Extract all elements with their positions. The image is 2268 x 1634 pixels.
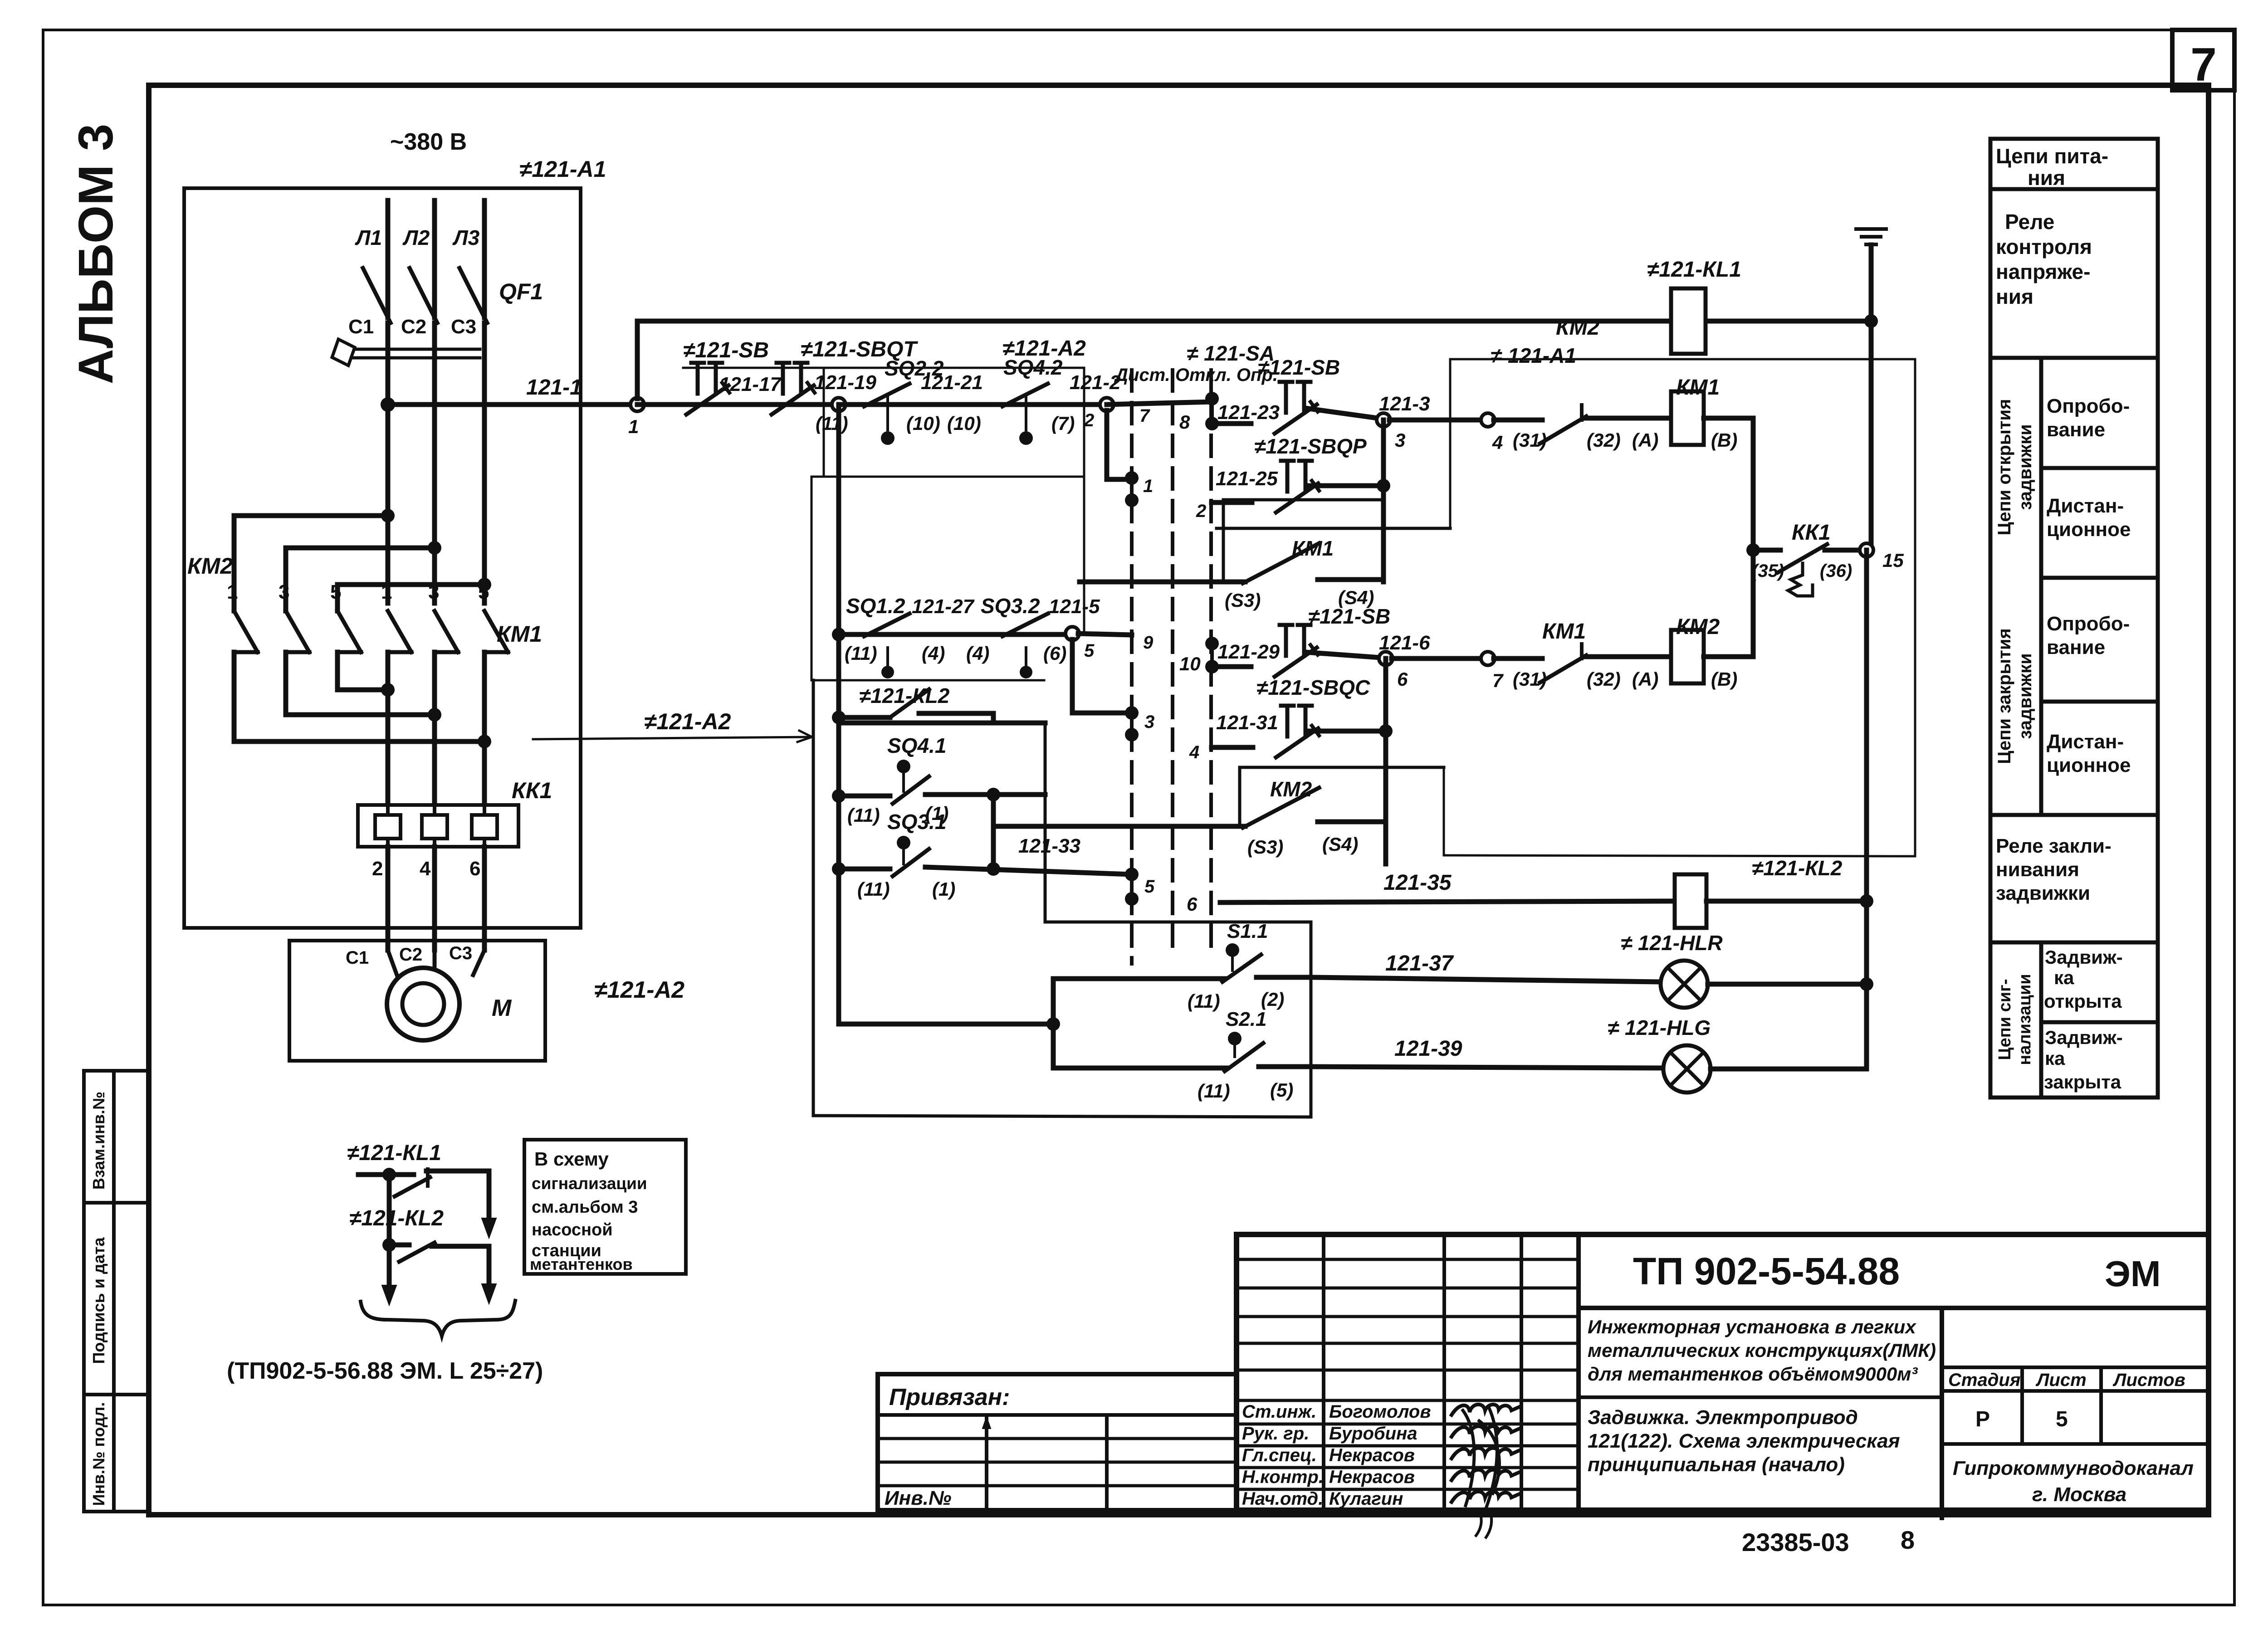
travel switch SQ3.2 bbox=[1002, 614, 1048, 636]
svg-text:закрыта: закрыта bbox=[2044, 1071, 2121, 1093]
svg-text:Реле закли-: Реле закли- bbox=[1996, 835, 2112, 857]
svg-text:насосной: насосной bbox=[532, 1220, 613, 1239]
svg-text:121-21: 121-21 bbox=[921, 371, 983, 394]
svg-text:ТП 902-5-54.88: ТП 902-5-54.88 bbox=[1633, 1250, 1900, 1293]
svg-text:121-17: 121-17 bbox=[719, 373, 782, 395]
svg-text:Н.контр.: Н.контр. bbox=[1242, 1467, 1324, 1487]
right function table bbox=[1990, 139, 2158, 1097]
svg-text:сигнализации: сигнализации bbox=[532, 1174, 647, 1193]
pushbutton SBQT bbox=[777, 363, 807, 394]
svg-text:121-5: 121-5 bbox=[1049, 595, 1100, 618]
svg-text:8: 8 bbox=[1179, 411, 1190, 433]
selfhold contact KM1 box bbox=[1217, 527, 1450, 530]
title block main bbox=[1237, 1234, 2209, 1510]
svg-text:Опробо-: Опробо- bbox=[2047, 613, 2130, 635]
coil KM1 bbox=[1671, 391, 1704, 445]
svg-text:(35): (35) bbox=[1752, 561, 1784, 581]
svg-text:Цепи закрытия: Цепи закрытия bbox=[1994, 628, 2014, 764]
svg-text:В схему: В схему bbox=[534, 1148, 609, 1170]
svg-text:ка: ка bbox=[2054, 967, 2074, 988]
node 121-2 bbox=[1100, 398, 1114, 411]
svg-text:Задвиж-: Задвиж- bbox=[2045, 946, 2123, 968]
description cell bbox=[1940, 1308, 1944, 1518]
svg-text:Некрасов: Некрасов bbox=[1329, 1467, 1415, 1487]
svg-text:см.альбом 3: см.альбом 3 bbox=[532, 1198, 638, 1217]
svg-text:5: 5 bbox=[1144, 877, 1155, 897]
plug contacts 5 bbox=[1125, 868, 1139, 881]
svg-text:нализации: нализации bbox=[2015, 974, 2034, 1065]
svg-text:Стадия: Стадия bbox=[1948, 1370, 2020, 1390]
svg-text:121-31: 121-31 bbox=[1216, 712, 1278, 734]
svg-text:(11): (11) bbox=[857, 878, 890, 900]
svg-text:Листов: Листов bbox=[2112, 1370, 2185, 1390]
svg-text:(11): (11) bbox=[845, 643, 877, 664]
svg-text:SQ3.2: SQ3.2 bbox=[981, 594, 1040, 618]
svg-text:Инв.№: Инв.№ bbox=[885, 1487, 951, 1509]
svg-text:121-37: 121-37 bbox=[1385, 951, 1454, 976]
thin box A2 upper bbox=[683, 367, 1084, 369]
svg-text:(В): (В) bbox=[1711, 429, 1737, 451]
svg-text:(А): (А) bbox=[1632, 429, 1658, 451]
svg-text:КК1: КК1 bbox=[512, 778, 552, 803]
svg-text:задвижки: задвижки bbox=[2015, 424, 2035, 510]
svg-text:Цепи пита-: Цепи пита- bbox=[1996, 144, 2108, 168]
svg-text:напряже-: напряже- bbox=[1996, 260, 2090, 283]
svg-text:Гл.спец.: Гл.спец. bbox=[1242, 1445, 1317, 1465]
arrow down from dot bbox=[387, 1245, 392, 1292]
svg-text:≠ 121-НLG: ≠ 121-НLG bbox=[1608, 1016, 1711, 1039]
svg-text:г. Москва: г. Москва bbox=[2032, 1483, 2126, 1506]
svg-text:Дист. Откл. Опр.: Дист. Откл. Опр. bbox=[1114, 365, 1278, 385]
svg-text:(А): (А) bbox=[1632, 668, 1658, 690]
phase stubs below QF1 - C1 bbox=[386, 323, 391, 603]
right bus node15 down bbox=[1864, 550, 1869, 901]
svg-text:контроля: контроля bbox=[1996, 235, 2092, 259]
svg-text:Инжекторная установка в легких: Инжекторная установка в легких bbox=[1588, 1316, 1916, 1337]
svg-text:≠121-SВ: ≠121-SВ bbox=[1308, 605, 1390, 628]
svg-text:Некрасов: Некрасов bbox=[1329, 1445, 1415, 1465]
note box: to signaling circuit bbox=[524, 1140, 686, 1274]
svg-text:~380 В: ~380 В bbox=[390, 129, 467, 155]
svg-text:Подпись и дата: Подпись и дата bbox=[89, 1237, 108, 1364]
node 1 with riser to relay line bbox=[631, 398, 644, 411]
svg-text:Нач.отд.: Нач.отд. bbox=[1242, 1489, 1323, 1509]
right bus down bbox=[1869, 321, 1874, 550]
KM2 output cross wires bbox=[335, 652, 340, 690]
svg-text:(11): (11) bbox=[1188, 990, 1220, 1012]
wire SQ4.1 to 121-33 bbox=[991, 795, 996, 869]
svg-text:Л3: Л3 bbox=[452, 226, 480, 249]
svg-text:≠121-А2: ≠121-А2 bbox=[644, 709, 731, 734]
bus from node1 to node 121-19 bbox=[637, 402, 839, 407]
svg-text:С1: С1 bbox=[346, 948, 369, 968]
bus to node 7 bbox=[1392, 656, 1488, 661]
bus to node 4 bbox=[1389, 418, 1488, 423]
KM2 main contacts bbox=[234, 611, 258, 652]
svg-text:(S4): (S4) bbox=[1322, 834, 1358, 855]
svg-text:Ст.инж.: Ст.инж. bbox=[1242, 1402, 1316, 1422]
svg-text:(5): (5) bbox=[1270, 1079, 1293, 1101]
svg-text:10: 10 bbox=[1179, 653, 1201, 674]
svg-text:5: 5 bbox=[1084, 641, 1095, 661]
line 121-39 with lamp HLG bbox=[1311, 1067, 1663, 1068]
svg-text:для метантенков объёмом9000м³: для метантенков объёмом9000м³ bbox=[1588, 1363, 1918, 1385]
svg-text:Буробина: Буробина bbox=[1329, 1424, 1417, 1444]
button #121-SB open-test row 121-23 bbox=[1212, 421, 1251, 426]
svg-text:вание: вание bbox=[2047, 419, 2105, 441]
svg-text:открыта: открыта bbox=[2044, 990, 2122, 1012]
phase line L1 bbox=[386, 200, 391, 317]
svg-text:2: 2 bbox=[372, 858, 383, 880]
plug contacts 8 at SA line bbox=[1205, 392, 1219, 405]
svg-text:С3: С3 bbox=[451, 316, 476, 338]
svg-text:121-6: 121-6 bbox=[1379, 632, 1430, 654]
svg-text:Р: Р bbox=[1975, 1407, 1990, 1431]
line 121-37 with lamp HLR bbox=[1311, 977, 1661, 982]
KM2 feeder branches bbox=[381, 509, 395, 522]
line 121-35 to relay KL2 bbox=[1220, 901, 1675, 902]
pushbutton SB 1 bbox=[691, 363, 722, 394]
svg-text:121-39: 121-39 bbox=[1394, 1037, 1462, 1061]
svg-text:Дистан-: Дистан- bbox=[2047, 495, 2124, 517]
svg-text:≠121-КL2: ≠121-КL2 bbox=[349, 1206, 444, 1230]
svg-text:(10): (10) bbox=[947, 413, 981, 434]
left stamp column boxes bbox=[84, 1071, 149, 1512]
svg-text:Цепи открытия: Цепи открытия bbox=[1994, 399, 2014, 536]
svg-text:(В): (В) bbox=[1711, 668, 1737, 690]
svg-text:≠121-А2: ≠121-А2 bbox=[594, 977, 684, 1003]
svg-text:5: 5 bbox=[2056, 1407, 2068, 1431]
svg-text:Опробо-: Опробо- bbox=[2047, 395, 2130, 417]
svg-text:121-1: 121-1 bbox=[526, 376, 582, 400]
KM1 main contacts bbox=[388, 611, 411, 652]
document number TP 902-5-54.88 bbox=[1579, 1232, 2209, 1237]
coil KM2 bbox=[1671, 630, 1704, 683]
svg-text:SQ4.1: SQ4.1 bbox=[887, 734, 946, 757]
svg-text:6: 6 bbox=[1397, 668, 1408, 690]
svg-text:(S3): (S3) bbox=[1225, 590, 1261, 611]
relay feed line y708 to ground bus bbox=[637, 319, 1871, 324]
svg-text:121-27: 121-27 bbox=[912, 595, 975, 618]
svg-text:3: 3 bbox=[428, 581, 439, 603]
svg-text:121-33: 121-33 bbox=[1018, 835, 1080, 857]
svg-text:1: 1 bbox=[227, 581, 238, 603]
travel switch SQ4.2 bbox=[1002, 384, 1048, 406]
box SQ4.1 bbox=[839, 721, 1045, 726]
svg-text:4: 4 bbox=[1189, 742, 1199, 762]
svg-text:Задвижка. Электропривод: Задвижка. Электропривод bbox=[1588, 1406, 1858, 1429]
travel switch SQ1.2 row bbox=[832, 628, 846, 641]
svg-text:15: 15 bbox=[1882, 550, 1904, 571]
svg-text:7: 7 bbox=[2190, 39, 2217, 91]
svg-text:С1: С1 bbox=[348, 316, 374, 338]
phase stub C2 bbox=[432, 323, 437, 603]
stadia list listov header bbox=[1942, 1366, 2209, 1369]
collector line under SQ blades bbox=[811, 679, 1044, 682]
svg-text:(10): (10) bbox=[906, 413, 940, 434]
svg-text:КМ1: КМ1 bbox=[1676, 376, 1720, 400]
svg-text:ния: ния bbox=[1996, 285, 2033, 308]
motor M bbox=[388, 950, 397, 975]
motor enclosure box bbox=[289, 941, 545, 1061]
svg-text:Задвиж-: Задвиж- bbox=[2045, 1027, 2123, 1048]
sheet number box 7 bbox=[2172, 30, 2234, 90]
svg-text:АЛЬБОМ 3: АЛЬБОМ 3 bbox=[68, 124, 123, 384]
svg-text:≠121-SB: ≠121-SB bbox=[683, 338, 769, 362]
svg-text:КМ1: КМ1 bbox=[1292, 537, 1334, 560]
svg-text:≠121-КL2: ≠121-КL2 bbox=[1752, 856, 1843, 880]
svg-text:121-29: 121-29 bbox=[1217, 641, 1280, 663]
svg-text:(7): (7) bbox=[1051, 413, 1075, 434]
svg-text:Богомолов: Богомолов bbox=[1329, 1402, 1431, 1422]
svg-text:ка: ка bbox=[2045, 1048, 2065, 1069]
svg-text:(11): (11) bbox=[847, 805, 880, 826]
wire from node5 down to plug 3 bbox=[1070, 639, 1075, 713]
svg-text:(S3): (S3) bbox=[1247, 836, 1283, 858]
dashed selector lines SA bbox=[1130, 370, 1134, 964]
svg-text:≠121-КL1: ≠121-КL1 bbox=[1647, 258, 1741, 282]
svg-text:Л1: Л1 bbox=[355, 226, 382, 249]
title block Privyazan box bbox=[878, 1374, 1237, 1510]
svg-text:(4): (4) bbox=[922, 643, 945, 664]
relay coil #121-KL1 on relay line bbox=[1671, 288, 1706, 354]
thin box A2 lower bbox=[811, 476, 1084, 478]
svg-text:принципиальная (начало): принципиальная (начало) bbox=[1588, 1454, 1845, 1476]
button 121-31 row bbox=[1212, 745, 1253, 750]
svg-text:(2): (2) bbox=[1261, 989, 1284, 1010]
wires KK1 to motor bbox=[386, 847, 391, 950]
svg-text:М: М bbox=[492, 995, 512, 1021]
rail from node 121-19 down bbox=[836, 405, 841, 1024]
svg-text:(1): (1) bbox=[932, 878, 955, 900]
svg-text:2: 2 bbox=[1196, 501, 1206, 521]
svg-text:ЭМ: ЭМ bbox=[2105, 1254, 2161, 1294]
svg-text:(36): (36) bbox=[1820, 561, 1852, 581]
svg-text:5: 5 bbox=[330, 581, 341, 603]
svg-text:ционное: ционное bbox=[2047, 518, 2131, 541]
svg-text:С2: С2 bbox=[401, 316, 426, 338]
power circuit enclosure box bbox=[184, 188, 581, 928]
svg-text:9: 9 bbox=[1143, 633, 1154, 653]
plug contacts 1 bbox=[1125, 471, 1139, 485]
svg-text:Кулагин: Кулагин bbox=[1329, 1489, 1403, 1509]
svg-text:QF1: QF1 bbox=[499, 279, 543, 304]
svg-text:≠121-КL2: ≠121-КL2 bbox=[859, 684, 950, 707]
phase line L2 bbox=[432, 200, 437, 317]
svg-text:7: 7 bbox=[1139, 406, 1150, 426]
svg-text:6: 6 bbox=[469, 858, 480, 880]
svg-text:1: 1 bbox=[628, 416, 639, 437]
svg-text:Инв.№ подл.: Инв.№ подл. bbox=[89, 1402, 108, 1506]
svg-text:Взам.инв.№: Взам.инв.№ bbox=[89, 1092, 108, 1190]
svg-text:(11): (11) bbox=[816, 413, 848, 434]
wire coil KM2 up to KK1 bbox=[1704, 654, 1753, 659]
svg-text:(4): (4) bbox=[966, 643, 989, 664]
bus segment to plug 8 bbox=[1107, 402, 1212, 405]
svg-text:КМ2: КМ2 bbox=[1676, 615, 1720, 639]
svg-text:3: 3 bbox=[1144, 712, 1154, 732]
svg-text:121-2: 121-2 bbox=[1070, 371, 1121, 394]
svg-text:Лист: Лист bbox=[2035, 1370, 2087, 1390]
svg-text:≠121-А1: ≠121-А1 bbox=[519, 156, 606, 182]
travel switch SQ2.2 bbox=[839, 402, 1107, 407]
svg-text:Цепи сиг-: Цепи сиг- bbox=[1995, 979, 2014, 1060]
svg-text:≠ 121-А1: ≠ 121-А1 bbox=[1491, 344, 1576, 367]
svg-text:металлических конструкциях(ЛМК: металлических конструкциях(ЛМК) bbox=[1588, 1340, 1936, 1361]
svg-text:SQ3.1: SQ3.1 bbox=[887, 810, 946, 834]
rail to S box feed bbox=[839, 1022, 1053, 1027]
svg-text:Дистан-: Дистан- bbox=[2047, 731, 2124, 753]
thermal release hook bbox=[1788, 563, 1813, 596]
feed dot into S box bbox=[1051, 979, 1056, 1068]
svg-text:Л2: Л2 bbox=[402, 226, 430, 249]
thin boundary box #121-A1 bbox=[1450, 358, 1915, 361]
svg-text:121-35: 121-35 bbox=[1383, 871, 1452, 895]
QF1 trip bar bbox=[350, 349, 480, 358]
node 121-3 bbox=[1377, 413, 1390, 427]
svg-text:КМ2: КМ2 bbox=[1270, 777, 1312, 801]
KM1 outputs down to KK1 bbox=[386, 652, 391, 812]
relay coil #121-KL2 bbox=[1675, 874, 1706, 928]
svg-text:Гипрокоммунводоканал: Гипрокоммунводоканал bbox=[1953, 1457, 2194, 1479]
svg-text:4: 4 bbox=[1492, 432, 1503, 453]
svg-text:нивания: нивания bbox=[1996, 858, 2079, 881]
svg-text:Рук. гр.: Рук. гр. bbox=[1242, 1424, 1309, 1444]
svg-text:Реле: Реле bbox=[2005, 210, 2054, 234]
svg-text:121-23: 121-23 bbox=[1217, 401, 1280, 424]
circuit breaker QF1 bbox=[363, 268, 391, 323]
phase stub C3 bbox=[482, 323, 487, 603]
wire coil KM1 to KK1 contact bbox=[1704, 416, 1753, 421]
svg-text:S2.1: S2.1 bbox=[1226, 1008, 1267, 1030]
svg-text:S1.1: S1.1 bbox=[1227, 920, 1268, 942]
drawing frame bbox=[149, 85, 2209, 1515]
big thin enclosure of signal block bbox=[812, 680, 815, 1116]
svg-text:задвижки: задвижки bbox=[1996, 882, 2090, 904]
svg-text:С3: С3 bbox=[449, 943, 472, 963]
svg-text:6: 6 bbox=[1187, 893, 1198, 915]
svg-text:≠121-SBQР: ≠121-SBQР bbox=[1254, 434, 1367, 458]
phase line L3 bbox=[482, 200, 487, 317]
node 121-5 bbox=[1066, 627, 1079, 640]
svg-text:121-3: 121-3 bbox=[1379, 393, 1430, 415]
svg-text:≠ 121-НLR: ≠ 121-НLR bbox=[1621, 931, 1723, 955]
brace bbox=[361, 1301, 515, 1336]
node 121-19 bbox=[832, 398, 846, 411]
svg-text:(32): (32) bbox=[1587, 429, 1621, 451]
svg-text:7: 7 bbox=[1492, 670, 1504, 691]
thermal relay KK1 heater box bbox=[358, 805, 518, 847]
svg-text:5: 5 bbox=[478, 581, 489, 603]
svg-text:ния: ния bbox=[2028, 166, 2065, 190]
signatures bbox=[1452, 1405, 1520, 1415]
selfhold contact KM2 box bbox=[1240, 766, 1444, 769]
svg-text:КМ2: КМ2 bbox=[1556, 316, 1599, 340]
relay contact #121-KL2 row bbox=[832, 711, 846, 724]
svg-text:(6): (6) bbox=[1043, 643, 1066, 664]
branch from node2 to plug 1 bbox=[1105, 410, 1110, 479]
svg-text:3: 3 bbox=[279, 581, 289, 603]
svg-text:23385-03: 23385-03 bbox=[1742, 1528, 1849, 1556]
button 121-25 row bbox=[1212, 500, 1252, 505]
svg-text:1: 1 bbox=[1143, 476, 1153, 496]
svg-text:≠121-SB: ≠121-SB bbox=[1258, 356, 1340, 379]
wire node6 down bbox=[1383, 658, 1388, 864]
svg-text:задвижки: задвижки bbox=[2015, 653, 2035, 739]
svg-text:≠121-SВQС: ≠121-SВQС bbox=[1256, 676, 1370, 699]
svg-text:4: 4 bbox=[420, 858, 431, 880]
svg-text:С2: С2 bbox=[399, 945, 422, 965]
svg-text:КМ2: КМ2 bbox=[187, 553, 233, 579]
svg-text:1: 1 bbox=[381, 581, 392, 603]
svg-text:3: 3 bbox=[1395, 429, 1405, 451]
svg-text:121-25: 121-25 bbox=[1216, 468, 1278, 490]
svg-text:метантенков: метантенков bbox=[530, 1255, 633, 1273]
ground bbox=[1869, 245, 1874, 321]
svg-text:(31): (31) bbox=[1513, 668, 1547, 690]
svg-text:≠121-КL1: ≠121-КL1 bbox=[347, 1141, 441, 1165]
svg-text:8: 8 bbox=[1901, 1526, 1915, 1554]
svg-text:(31): (31) bbox=[1513, 429, 1547, 451]
svg-text:Привязан:: Привязан: bbox=[889, 1384, 1010, 1410]
svg-text:121(122). Схема электрическая: 121(122). Схема электрическая bbox=[1588, 1430, 1900, 1452]
svg-text:(32): (32) bbox=[1587, 668, 1621, 690]
node 121-6 bbox=[1379, 652, 1393, 665]
svg-text:КМ1: КМ1 bbox=[1542, 619, 1586, 644]
svg-text:вание: вание bbox=[2047, 636, 2105, 658]
plug contacts 3 bbox=[1125, 706, 1139, 720]
plug contacts 10 row 121-29 bbox=[1205, 637, 1219, 650]
svg-text:(ТП902-5-56.88 ЭМ. L 25÷27): (ТП902-5-56.88 ЭМ. L 25÷27) bbox=[227, 1358, 543, 1384]
svg-text:КК1: КК1 bbox=[1792, 521, 1831, 545]
svg-text:SQ1.2: SQ1.2 bbox=[846, 594, 905, 618]
bus 121-1 from C1 to node 1 bbox=[388, 402, 637, 407]
svg-text:(11): (11) bbox=[1198, 1080, 1230, 1102]
wire node3 down to selfhold bbox=[1381, 420, 1386, 582]
S box enclosure bbox=[1045, 921, 1311, 924]
svg-text:ционное: ционное bbox=[2047, 754, 2131, 776]
